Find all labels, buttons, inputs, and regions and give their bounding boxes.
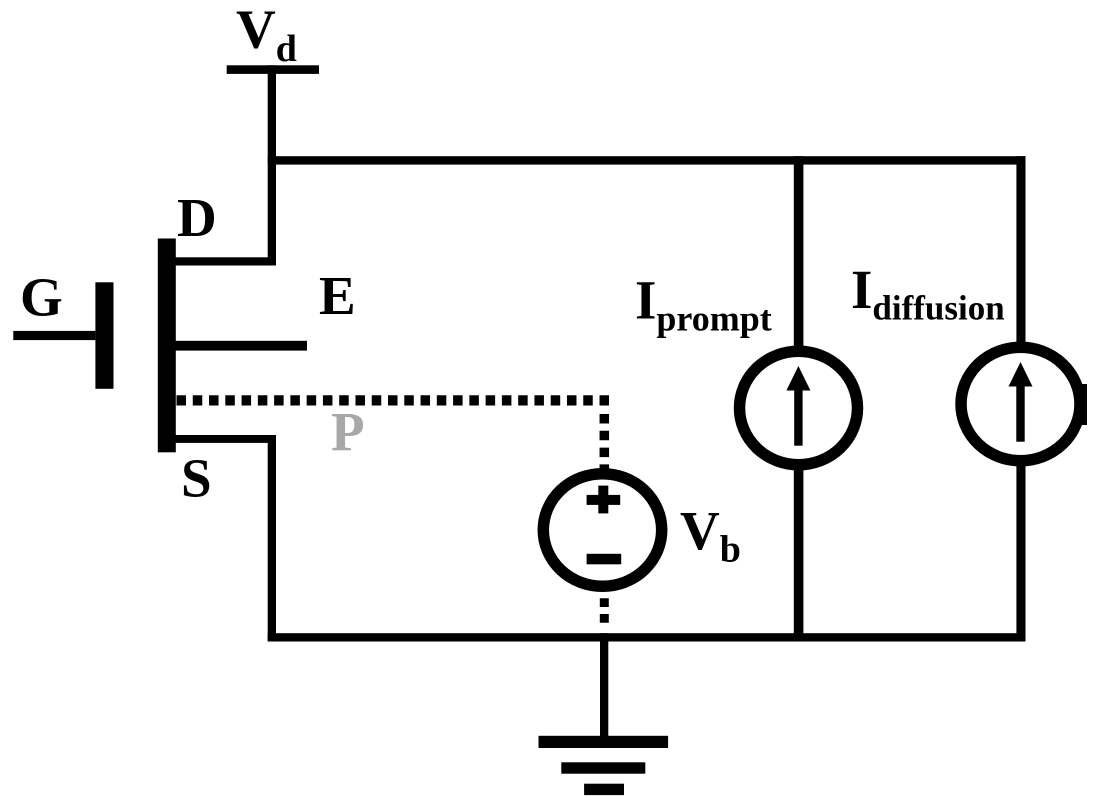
wire ground stem — [600, 633, 608, 738]
transistor M1 source wire — [166, 435, 276, 443]
svg-text:D: D — [177, 187, 217, 248]
wire Vd stem — [268, 65, 276, 265]
svg-text:E: E — [319, 265, 356, 326]
current source Iprompt circle — [740, 351, 858, 464]
Vb minus sign — [587, 554, 622, 565]
Vb plus sign — [587, 486, 621, 514]
power terminal Vd bar — [227, 65, 319, 74]
wire source down lead — [268, 435, 276, 642]
svg-text:S: S — [181, 448, 212, 509]
transistor M1 gate lead wire — [13, 331, 95, 340]
wire stub right of Idiffusion — [1082, 384, 1087, 425]
transistor M1 channel bar — [158, 239, 176, 453]
current source Idiffusion arrow — [1009, 362, 1033, 442]
dotted wire down to Vb — [600, 414, 610, 470]
transistor M1 drain wire — [166, 257, 276, 265]
transistor M1 emitter wire E — [166, 341, 307, 351]
wire top rail — [268, 156, 1026, 164]
wire Iprompt branch — [794, 156, 804, 641]
dotted wire Vb to bottom rail — [600, 598, 609, 627]
current source Idiffusion circle — [961, 347, 1080, 460]
svg-text:G: G — [20, 267, 63, 328]
ground symbol — [539, 736, 669, 795]
transistor M1 gate bar — [95, 282, 113, 389]
wire right branch Idiffusion — [1016, 156, 1025, 641]
node P dotted wire horizontal — [177, 395, 610, 405]
voltage source Vb circle — [543, 474, 661, 587]
svg-text:P: P — [331, 401, 365, 462]
current source Iprompt arrow — [786, 366, 810, 446]
wire bottom rail — [268, 633, 1026, 641]
